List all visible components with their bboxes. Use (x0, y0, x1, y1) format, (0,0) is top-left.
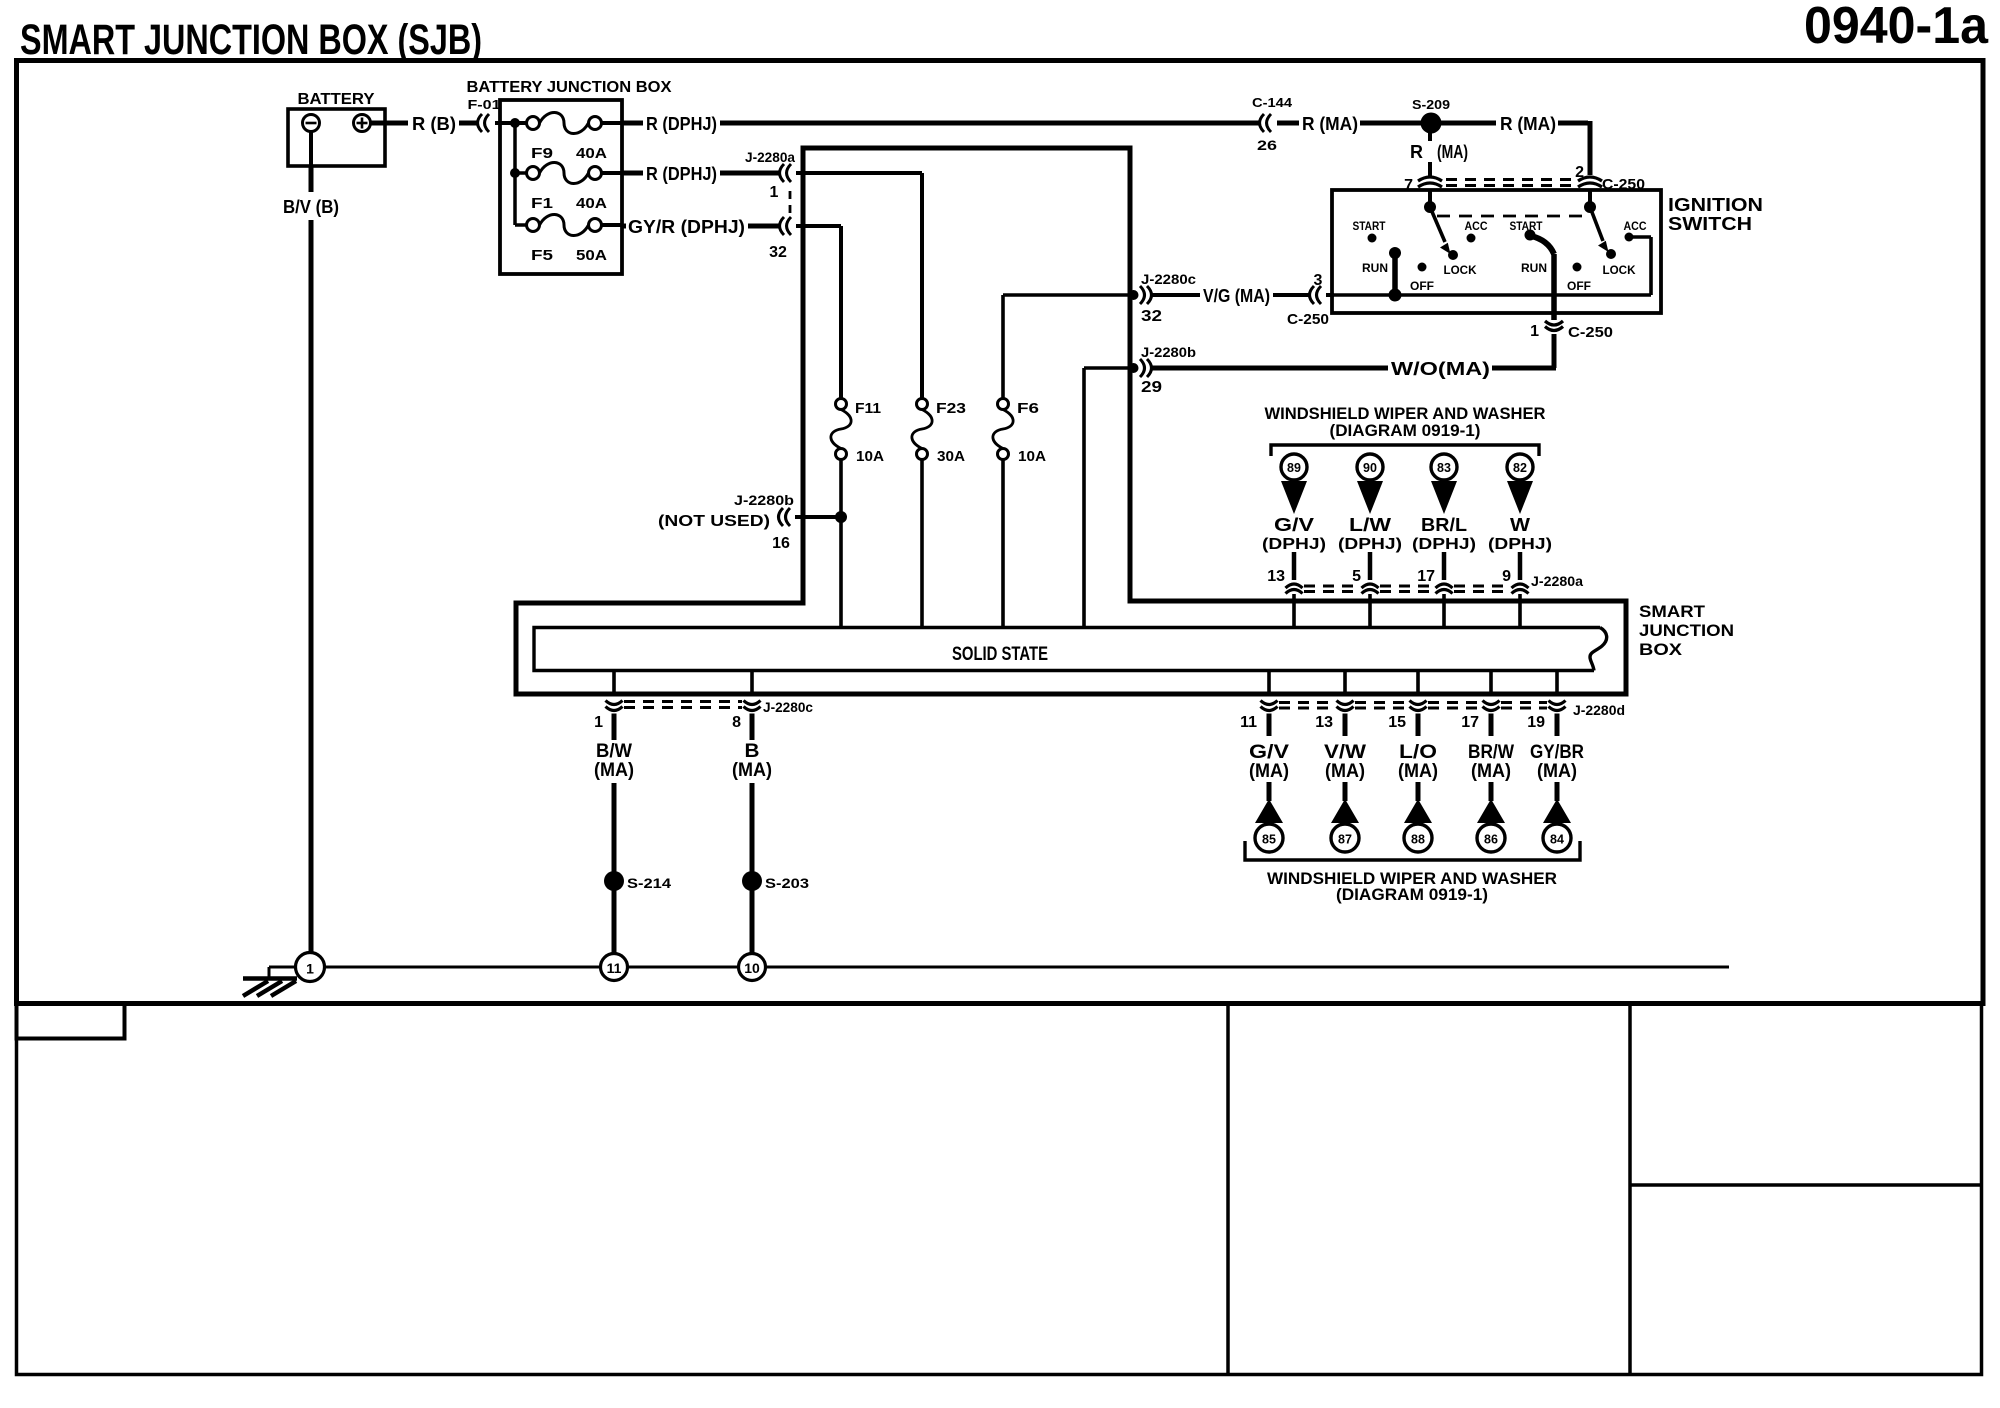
svg-text:15: 15 (1388, 714, 1406, 731)
svg-text:J-2280d: J-2280d (1573, 702, 1625, 718)
svg-text:C-144: C-144 (1252, 95, 1293, 110)
ignition dashed link (1437, 215, 1583, 218)
wiper pin circle 83 (1431, 454, 1457, 480)
wire R (B) to F-01 (459, 121, 478, 126)
main border frame (17, 61, 1984, 1004)
svg-text:30A: 30A (937, 448, 965, 465)
svg-text:IGNITION: IGNITION (1668, 195, 1763, 215)
connector J-2280c pin 1 number (594, 714, 603, 731)
wire BR/W to arrow (1489, 782, 1494, 801)
wire pin 13 stub (1343, 714, 1348, 737)
wire bus to F5 (515, 223, 527, 227)
fuse F6 (993, 399, 1013, 460)
svg-text:OFF: OFF (1567, 279, 1591, 293)
svg-text:V/W: V/W (1324, 742, 1366, 763)
svg-text:S-214: S-214 (627, 875, 671, 891)
label B/W (MA) (594, 741, 634, 781)
label R (MA) 2 (1500, 114, 1556, 134)
title block outer (17, 1004, 1982, 1375)
svg-text:32: 32 (1141, 308, 1162, 325)
svg-text:(MA): (MA) (1325, 761, 1365, 782)
label R (MA) 1 (1302, 114, 1358, 134)
battery label (298, 91, 375, 108)
wiper top bracket (1271, 445, 1539, 456)
ignition right START-RUN arm (1525, 230, 1555, 255)
wiper pin circle 90 (1357, 454, 1383, 480)
label F9 40A (531, 145, 607, 162)
svg-text:F23: F23 (936, 400, 966, 417)
connector J-2280c pin 32 number (1141, 308, 1162, 325)
wire pin 13 into SJB (1292, 594, 1296, 628)
wire to C-250 pin2 corner (1558, 121, 1590, 175)
svg-text:(DIAGRAM 0919-1): (DIAGRAM 0919-1) (1330, 421, 1481, 440)
ignition switch label (1668, 195, 1763, 234)
wire pin 17 into SJB (1442, 594, 1446, 628)
title block divider 1 (1226, 1004, 1230, 1373)
fuse F9 40A (527, 112, 602, 133)
connector J-2280b label (1141, 344, 1196, 360)
wire W/O to J-2280b (1150, 366, 1388, 371)
ignition left LOCK contact (1448, 250, 1458, 260)
svg-text:C-250: C-250 (1287, 311, 1329, 328)
label LOCK left (1444, 263, 1477, 277)
svg-text:89: 89 (1287, 461, 1301, 475)
wire R (DPHJ) row2 stub (622, 171, 643, 176)
svg-text:SOLID STATE: SOLID STATE (952, 644, 1048, 665)
svg-text:17: 17 (1417, 568, 1435, 585)
connector C-144 (1260, 114, 1272, 132)
svg-text:RUN: RUN (1362, 261, 1388, 275)
wire pin 15 stub (1416, 714, 1421, 737)
wire pin1 down-left (1492, 334, 1556, 368)
arrow to pin 84 (1543, 799, 1571, 823)
svg-text:1: 1 (770, 184, 779, 201)
label F6 10A (1018, 448, 1046, 465)
wiper pin circle 86 (1477, 824, 1505, 852)
label F23 (936, 400, 966, 417)
connector J-2280a pin 9 number (1502, 568, 1511, 585)
ignition output vertical (1551, 254, 1557, 320)
battery minus terminal (303, 115, 320, 132)
svg-text:W/O(MA): W/O(MA) (1391, 359, 1490, 379)
label ACC right (1624, 219, 1647, 233)
connector J-2280a pin 5 number (1352, 568, 1361, 585)
ignition right arm (1590, 207, 1609, 252)
connector J-2280c pin 8 (744, 701, 761, 711)
connector J-2280c pin 1 (606, 701, 623, 711)
svg-text:R (MA): R (MA) (1500, 114, 1556, 134)
wire SJB out x1491 (1489, 671, 1493, 694)
connector C-250 pin 2 label (1575, 164, 1584, 181)
arrow to pin 87 (1331, 799, 1359, 823)
connector J-2280a top dashed link (1304, 586, 1510, 592)
svg-text:19: 19 (1527, 714, 1545, 731)
fuse F1 40A (527, 162, 602, 183)
connector J-2280a pin 13 number (1267, 568, 1285, 585)
svg-text:B/W: B/W (596, 741, 632, 762)
label BR/L (DPHJ) (1412, 515, 1476, 553)
label F11 (855, 400, 881, 417)
svg-text:(DPHJ): (DPHJ) (1262, 536, 1326, 553)
label B/V (B) (283, 197, 339, 217)
connector J-2280a pin 32 number (769, 244, 787, 261)
svg-text:OFF: OFF (1410, 279, 1434, 293)
svg-text:5: 5 (1352, 568, 1361, 585)
svg-text:10A: 10A (856, 448, 884, 465)
svg-text:BATTERY: BATTERY (298, 91, 375, 108)
svg-text:13: 13 (1315, 714, 1333, 731)
label F23 30A (937, 448, 965, 465)
fuse F5 50A (527, 214, 602, 235)
smart junction box outline (516, 148, 1626, 694)
wire GY/R to J-2280a (748, 224, 780, 229)
label G/V (DPHJ) (1262, 515, 1326, 553)
wire G/V stub (1292, 552, 1297, 580)
wire SJB out x614 (612, 671, 616, 694)
wire pin 9 into SJB (1518, 594, 1522, 628)
wire R (MA) to S-209 (1360, 121, 1421, 126)
svg-text:F9: F9 (531, 145, 553, 162)
label F1 40A (531, 195, 607, 212)
svg-text:86: 86 (1484, 833, 1498, 847)
wire F-01 to BJB (495, 121, 526, 125)
connector J-2280c pin 32 (1129, 286, 1152, 304)
wire F5 out (602, 223, 623, 227)
connector J-2280a dashed link (789, 191, 792, 213)
svg-text:ACC: ACC (1624, 219, 1647, 233)
wire pin7 into switch (1428, 189, 1432, 204)
wire SJB out x1557 (1555, 671, 1559, 694)
wire R (DPHJ) row1 stub (622, 121, 643, 126)
BJB internal bus wire (513, 121, 517, 225)
splice S-203 (742, 871, 762, 891)
label GY/BR (MA) (1530, 742, 1584, 782)
wiper bottom bracket (1245, 841, 1580, 860)
battery plus terminal (354, 115, 371, 132)
wire B/V (B) vertical (309, 220, 314, 953)
ignition V/G internal wire (1332, 293, 1651, 297)
ignition right pivot (1584, 201, 1596, 213)
connector J-2280d pin 13 number (1315, 714, 1333, 731)
svg-text:84: 84 (1550, 833, 1564, 847)
connector J-2280d dashed link (1279, 703, 1547, 709)
svg-text:R: R (1410, 142, 1423, 162)
junction dot BJB top (510, 118, 520, 128)
connector J-2280c bottom dashed link (624, 702, 742, 708)
ignition switch outline (1332, 190, 1661, 313)
svg-text:29: 29 (1141, 379, 1162, 396)
connector C-250 pin 7 (1418, 177, 1442, 187)
title block small box (17, 1004, 125, 1039)
svg-text:BR/W: BR/W (1468, 742, 1514, 763)
connector J-2280a pin 1 number (770, 184, 779, 201)
wiper pin circle 84 (1543, 824, 1571, 852)
svg-text:(DPHJ): (DPHJ) (1488, 536, 1552, 553)
splice S-209 label (1412, 97, 1450, 112)
svg-text:S-209: S-209 (1412, 97, 1450, 112)
svg-text:START: START (1510, 219, 1544, 233)
connector J-2280c pin 8 number (732, 714, 741, 731)
label RUN left (1362, 261, 1388, 275)
label SOLID STATE (952, 644, 1048, 665)
connector J-2280a pin 17 (1436, 584, 1453, 594)
svg-text:85: 85 (1262, 833, 1276, 847)
wire B/W down (612, 783, 617, 954)
connector J-2280a pin 32 (780, 217, 792, 235)
wire pin32 to F11 (796, 226, 841, 399)
connector J-2280a pin 5 (1362, 584, 1379, 594)
connector J-2280a pin 17 number (1417, 568, 1435, 585)
svg-text:J-2280c: J-2280c (763, 699, 813, 715)
svg-text:8: 8 (732, 714, 741, 731)
wire bus to F1 (515, 171, 527, 175)
svg-text:GY/BR: GY/BR (1530, 742, 1584, 763)
svg-text:J-2280a: J-2280a (1531, 573, 1583, 589)
ground symbol (243, 967, 297, 996)
svg-text:S-203: S-203 (765, 875, 809, 891)
wire SJB out x1418 (1416, 671, 1420, 694)
label LOCK right (1603, 263, 1636, 277)
wire pin 17 stub (1489, 714, 1494, 737)
svg-text:L/W: L/W (1349, 515, 1391, 535)
wire V/G to C-250 pin3 (1273, 293, 1311, 297)
svg-text:BR/L: BR/L (1421, 515, 1467, 535)
connector C-144 pin 26 (1257, 137, 1277, 153)
connector C-250 pin3 label (1287, 311, 1329, 328)
svg-text:83: 83 (1437, 461, 1451, 475)
splice S-209 (1421, 113, 1442, 134)
wire F23 down (920, 460, 924, 629)
connector J-2280d pin 11 number (1240, 714, 1257, 731)
label F6 (1017, 400, 1039, 417)
wire F9 out (602, 121, 623, 125)
solid state box (534, 628, 1607, 671)
wire C-144 to R (MA) (1277, 121, 1299, 126)
label R (DPHJ) row2 (646, 164, 717, 184)
svg-text:10A: 10A (1018, 448, 1046, 465)
svg-text:LOCK: LOCK (1603, 263, 1636, 277)
arrow from pin 82 (1507, 481, 1533, 514)
connector C-250 pin 3 (1310, 286, 1322, 304)
svg-text:F11: F11 (855, 400, 881, 417)
connector C-250 bottom label (1568, 324, 1613, 341)
ignition right LOCK contact (1606, 249, 1616, 259)
svg-text:J-2280a: J-2280a (745, 149, 795, 165)
wire pin1 to F23 (796, 173, 922, 399)
wiper pin circle 87 (1331, 824, 1359, 852)
wiper pin circle 89 (1281, 454, 1307, 480)
svg-text:C-250: C-250 (1568, 324, 1613, 341)
svg-text:BATTERY JUNCTION BOX: BATTERY JUNCTION BOX (467, 79, 672, 96)
svg-text:F-01: F-01 (468, 97, 501, 112)
wire S-209 down upper (1428, 132, 1432, 141)
svg-text:JUNCTION: JUNCTION (1639, 621, 1734, 640)
wire battery plus to R (B) (371, 121, 409, 126)
svg-text:(MA): (MA) (1537, 761, 1577, 782)
label B (MA) (732, 741, 772, 781)
svg-text:(MA): (MA) (1437, 142, 1468, 162)
wire G/V to arrow (1267, 782, 1272, 801)
title block right horizontal (1630, 1183, 1980, 1187)
label R (B) (412, 114, 456, 134)
wire L/O to arrow (1416, 782, 1421, 801)
connector J-2280a pin 13 (1286, 584, 1303, 594)
wire V/W to arrow (1343, 782, 1348, 801)
connector J-2280b pin 29 number (1141, 379, 1162, 396)
page number 0940-1a (1804, 0, 1989, 55)
wire J-2280b internal (1084, 368, 1133, 628)
svg-text:13: 13 (1267, 568, 1285, 585)
connector J-2280b pin 16 (779, 508, 791, 526)
connector C-250 pin 7 label (1404, 177, 1413, 194)
svg-text:17: 17 (1461, 714, 1479, 731)
svg-text:(MA): (MA) (1471, 761, 1511, 782)
wire S-209 down lower (1428, 162, 1432, 176)
wire C-250 pin3 into switch (1326, 293, 1334, 297)
label ACC left (1465, 219, 1488, 233)
svg-text:11: 11 (1240, 714, 1257, 731)
arrow to pin 85 (1255, 799, 1283, 823)
connector J-2280d label (1573, 702, 1625, 718)
wire GY/R stub (622, 224, 626, 229)
svg-text:G/V: G/V (1274, 515, 1314, 535)
connector J-2280c bottom label (763, 699, 813, 715)
svg-text:90: 90 (1363, 461, 1377, 475)
contact ACC left (1467, 234, 1476, 243)
connector J-2280d pin 19 number (1527, 714, 1545, 731)
label R (MA) 3 (1410, 142, 1468, 162)
label L/W (DPHJ) (1338, 515, 1402, 553)
ignition left pivot (1424, 201, 1436, 213)
wire battery minus down (309, 132, 313, 167)
svg-text:GY/R (DPHJ): GY/R (DPHJ) (628, 217, 745, 237)
ground circle 10 (739, 954, 766, 981)
dashed link C-250 7-2 (1446, 180, 1574, 186)
wire BR/L stub (1442, 552, 1447, 580)
wire pin 1 stub (612, 714, 617, 741)
svg-text:26: 26 (1257, 137, 1277, 153)
wire pin16 stub (795, 515, 841, 519)
ground circle 11 (601, 954, 628, 981)
svg-text:J-2280c: J-2280c (1141, 271, 1196, 287)
wire GY/BR to arrow (1555, 782, 1560, 801)
svg-text:82: 82 (1513, 461, 1527, 475)
wire row2 to J-2280a (720, 171, 780, 176)
wire F11 down (839, 460, 843, 629)
connector J-2280a pin 1 (780, 164, 792, 182)
connector C-250 pin 2 (1578, 177, 1602, 187)
svg-text:40A: 40A (576, 145, 607, 162)
connector J-2280d pin 15 (1410, 701, 1427, 711)
connector J-2280a label (745, 149, 795, 165)
splice S-203 label (765, 875, 809, 891)
connector C-250 pin 3 number (1314, 272, 1323, 289)
ignition ACC path (1633, 237, 1651, 295)
label R (DPHJ) row1 (646, 114, 717, 134)
label V/W (MA) (1324, 742, 1366, 782)
svg-text:40A: 40A (576, 195, 607, 212)
svg-text:(MA): (MA) (594, 760, 634, 781)
connector J-2280d pin 17 (1483, 701, 1500, 711)
connector J-2280d pin 15 number (1388, 714, 1406, 731)
connector C-250 pin 1 (1545, 321, 1563, 331)
svg-text:R (DPHJ): R (DPHJ) (646, 164, 717, 184)
wire V/G to F6 drop (1001, 295, 1005, 399)
arrow from pin 90 (1357, 481, 1383, 514)
svg-text:16: 16 (772, 535, 790, 552)
connector J-2280b pin 16 number (772, 535, 790, 552)
label NOT USED (658, 513, 770, 530)
title SMART JUNCTION BOX (SJB) (20, 16, 482, 64)
connector C-144 label (1252, 95, 1293, 110)
svg-text:(DPHJ): (DPHJ) (1338, 536, 1402, 553)
wire W stub (1518, 552, 1523, 580)
label L/O (MA) (1398, 742, 1438, 782)
arrow to pin 86 (1477, 799, 1505, 823)
svg-text:SMART JUNCTION BOX (SJB): SMART JUNCTION BOX (SJB) (20, 16, 482, 64)
wire SJB out x1345 (1343, 671, 1347, 694)
svg-text:LOCK: LOCK (1444, 263, 1477, 277)
contact START left (1368, 234, 1377, 243)
wire S-209 right (1439, 121, 1496, 126)
svg-text:(MA): (MA) (732, 760, 772, 781)
svg-text:BOX: BOX (1639, 640, 1683, 659)
wire pin2 into switch (1588, 189, 1592, 204)
wiper pin circle 85 (1255, 824, 1283, 852)
battery junction box outline (500, 100, 622, 274)
svg-text:V/G (MA): V/G (MA) (1203, 286, 1270, 306)
wire B down (750, 783, 755, 954)
wire pin 8 stub (750, 714, 755, 741)
connector J-2280d pin 13 (1337, 701, 1354, 711)
label OFF left (1410, 279, 1434, 293)
label F11 10A (856, 448, 884, 465)
ignition left arm (1430, 207, 1451, 254)
battery BATT box (288, 109, 385, 166)
smart junction box label (1639, 602, 1734, 659)
svg-text:START: START (1353, 219, 1387, 233)
wire SJB out x1269 (1267, 671, 1271, 694)
connector F-01 (478, 114, 490, 132)
wire J-2280c to V/G label (1152, 293, 1200, 297)
contact ACC right (1625, 233, 1634, 242)
ignition RUN bar (1389, 247, 1402, 302)
svg-text:9: 9 (1502, 568, 1511, 585)
connector C-250 top label (1602, 176, 1645, 193)
arrow to pin 88 (1404, 799, 1432, 823)
svg-text:B/V (B): B/V (B) (283, 197, 339, 217)
wire V/G internal (1003, 293, 1133, 297)
svg-text:SWITCH: SWITCH (1668, 214, 1752, 234)
svg-text:R (B): R (B) (412, 114, 456, 134)
svg-text:32: 32 (769, 244, 787, 261)
wire L/W stub (1368, 552, 1373, 580)
label V/G (MA) (1203, 286, 1270, 306)
splice S-214 (604, 871, 624, 891)
wire R (DPHJ) long (720, 121, 1260, 126)
svg-text:F6: F6 (1017, 400, 1039, 417)
battery junction box label (467, 79, 672, 96)
svg-text:W: W (1510, 515, 1530, 535)
label START right (1510, 219, 1544, 233)
svg-text:87: 87 (1338, 833, 1352, 847)
arrow from pin 89 (1281, 481, 1307, 514)
connector J-2280a top label (1531, 573, 1583, 589)
wire pin 19 stub (1555, 714, 1560, 737)
connector J-2280d pin 11 (1261, 701, 1278, 711)
contact OFF left (1418, 263, 1427, 272)
wire pin 11 stub (1267, 714, 1272, 737)
